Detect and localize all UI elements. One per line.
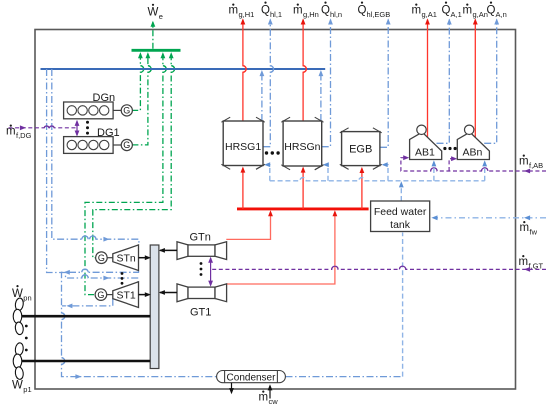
- wire STn generator to bus: [93, 52, 175, 258]
- label m_f,DG: [6, 125, 32, 141]
- electric bus bar: [132, 49, 181, 52]
- svg-text:G: G: [98, 253, 105, 263]
- junction fuel DG double arrow: [75, 120, 80, 137]
- svg-text:ST1: ST1: [117, 290, 136, 302]
- svg-text:Q: Q: [321, 5, 330, 17]
- svg-text:Condenser: Condenser: [227, 373, 277, 384]
- wire GTn exhaust to bus: [226, 210, 273, 239]
- wire fuel m_f,DG to diesel generators: [9, 125, 78, 130]
- wire feed water to AB1: [432, 160, 437, 181]
- wire DG1 generator to bus: [132, 52, 151, 145]
- label DGn: [93, 92, 116, 104]
- svg-text:STn: STn: [117, 253, 136, 265]
- svg-text:hl,EGB: hl,EGB: [367, 10, 391, 19]
- svg-text:Feed water: Feed water: [374, 206, 427, 218]
- gearbox shaft bar: [150, 245, 159, 369]
- dots between AB units: [443, 147, 456, 150]
- svg-text:GT1: GT1: [190, 307, 211, 319]
- wire flue gas m_g,H1 out of HRSG1: [241, 18, 247, 121]
- wire cooling water m_cw into condenser: [268, 384, 273, 398]
- svg-text:m: m: [520, 222, 530, 234]
- wire DGn generator to bus: [132, 52, 144, 110]
- svg-text:GTn: GTn: [190, 231, 211, 243]
- wire flue gas m_g,An out of ABn: [473, 18, 478, 137]
- svg-text:AB1: AB1: [415, 147, 435, 159]
- svg-text:Q: Q: [358, 5, 367, 17]
- boiler HRSGn: [281, 117, 323, 170]
- svg-text:e: e: [159, 12, 163, 21]
- wire HRSG1 steam riser: [260, 70, 265, 121]
- dots between ST units: [121, 272, 124, 285]
- wire HRSGn steam riser: [319, 70, 324, 121]
- wire fuel branch to ABn: [449, 156, 457, 171]
- diesel engine DG1: [64, 137, 114, 154]
- svg-text:m: m: [229, 5, 239, 17]
- label Q_hl,EGB: [358, 1, 391, 19]
- feed water tank: [371, 201, 430, 232]
- generator G of ST1: [95, 289, 113, 301]
- svg-text:G: G: [97, 290, 104, 300]
- svg-text:Q: Q: [442, 5, 451, 17]
- shaft gearbox to GTn: [159, 248, 177, 253]
- wire feed water tank riser: [399, 181, 404, 201]
- svg-text:g,H1: g,H1: [239, 10, 255, 19]
- svg-text:hl,1: hl,1: [270, 10, 282, 19]
- wire ST1 generator to bus: [85, 52, 166, 295]
- auxiliary boiler ABn: [457, 125, 489, 159]
- svg-text:DG1: DG1: [97, 127, 120, 139]
- svg-text:m: m: [519, 256, 529, 268]
- wire Q_hl,EGB heat loss EGB: [380, 18, 391, 147]
- propeller shaft 1: [21, 360, 151, 363]
- wire Q_A,n heat loss ABn: [484, 18, 499, 143]
- propeller shaft n: [21, 315, 151, 318]
- svg-text:W: W: [12, 380, 23, 392]
- boiler EGB: [340, 128, 382, 170]
- svg-text:f,DG: f,DG: [16, 131, 32, 140]
- wire feed water to ABn: [482, 160, 487, 181]
- svg-text:Q: Q: [487, 5, 496, 17]
- svg-text:p1: p1: [23, 385, 31, 394]
- label m_f,GT: [519, 255, 544, 271]
- svg-text:f,AB: f,AB: [529, 161, 543, 170]
- label m_f,AB: [519, 155, 543, 171]
- dots between propellers: [25, 325, 28, 352]
- wire STn exhaust to condenser: [62, 269, 217, 379]
- propeller W_pn: [13, 298, 24, 336]
- svg-text:m: m: [259, 392, 269, 404]
- diesel engine DGn: [64, 102, 114, 119]
- svg-text:Q: Q: [261, 5, 270, 17]
- label W_e electric power: [148, 4, 163, 21]
- svg-text:G: G: [123, 140, 130, 150]
- junction fuel GT double arrow: [208, 257, 213, 287]
- label GTn: [190, 231, 211, 243]
- label Q_hl,n: [321, 1, 342, 19]
- generator G of DGn: [113, 105, 132, 116]
- svg-text:G: G: [123, 106, 130, 116]
- label Q_A,1: [442, 1, 462, 19]
- shaft STn to gearbox: [139, 255, 151, 260]
- dots between GT units: [200, 262, 203, 276]
- steam header line: [41, 68, 326, 70]
- wire flue gas m_g,Hn out of HRSGn: [301, 18, 307, 121]
- condenser: [217, 371, 286, 384]
- exhaust gas bus bar: [237, 207, 369, 210]
- dots between HRSG units: [265, 151, 280, 154]
- svg-text:m: m: [412, 5, 422, 17]
- wire Q_A,1 heat loss AB1: [437, 18, 452, 143]
- steam turbine STn: [113, 245, 139, 271]
- dots between DG units: [86, 121, 89, 135]
- svg-text:tank: tank: [390, 219, 411, 231]
- svg-text:m: m: [463, 5, 473, 17]
- label m_g,Hn: [293, 4, 319, 20]
- wire Q_hl,n heat loss HRSGn: [322, 18, 333, 146]
- boiler HRSG1: [221, 117, 264, 169]
- label DG1: [97, 127, 120, 139]
- gas turbine GTn: [177, 242, 227, 260]
- wire steam supply to ST1: [47, 69, 138, 281]
- generator G of STn: [96, 252, 113, 264]
- wire exhaust bus to EGB: [360, 167, 365, 209]
- svg-text:hl,n: hl,n: [330, 10, 342, 19]
- label m_g,A1: [412, 4, 437, 20]
- wire feed water to HRSGn: [323, 162, 329, 181]
- svg-text:A,n: A,n: [496, 10, 507, 19]
- propeller W_p1: [13, 342, 24, 380]
- auxiliary boiler AB1: [410, 125, 442, 159]
- label W_pn: [12, 285, 32, 303]
- label m_cw: [259, 391, 279, 407]
- label W_p1: [12, 377, 32, 395]
- wire condensate condenser outlet: [286, 376, 403, 378]
- wire W_e to electric bus: [151, 21, 156, 49]
- svg-text:ABn: ABn: [462, 147, 482, 159]
- label m_g,An: [463, 4, 488, 20]
- label m_g,H1: [229, 4, 255, 20]
- feed water header line: [270, 178, 485, 181]
- svg-text:DGn: DGn: [93, 92, 116, 104]
- wire exhaust bus to HRSGn: [301, 167, 306, 209]
- wire cooling water out of condenser: [229, 383, 234, 395]
- wire condensate riser to feed water tank: [402, 233, 404, 377]
- wire fuel m_f,GT to gas turbines: [211, 266, 546, 272]
- wire steam supply to STn: [52, 69, 139, 245]
- shaft gearbox to GT1: [159, 290, 177, 295]
- wire feed water to HRSG1: [264, 162, 270, 181]
- label m_fw: [520, 221, 538, 237]
- svg-text:A,1: A,1: [451, 10, 462, 19]
- label Q_A,n: [487, 1, 507, 19]
- svg-text:pn: pn: [23, 294, 31, 303]
- wire feed water to EGB: [382, 162, 388, 181]
- svg-text:EGB: EGB: [349, 144, 372, 156]
- svg-text:g,Hn: g,Hn: [303, 10, 319, 19]
- gas turbine GT1: [177, 284, 227, 302]
- label GT1: [190, 307, 211, 319]
- svg-text:fw: fw: [530, 228, 538, 237]
- svg-text:m: m: [519, 156, 529, 168]
- wire exhaust bus to HRSG1: [241, 167, 246, 209]
- label Q_hl,1: [261, 1, 282, 19]
- wire ST1 exhaust: [62, 299, 113, 309]
- wire fuel m_f,AB to auxiliary boilers: [401, 155, 546, 173]
- wire flue gas m_g,A1 out of AB1: [425, 18, 430, 137]
- wire GT1 exhaust to bus: [226, 210, 337, 284]
- svg-text:m: m: [293, 5, 303, 17]
- shaft ST1 to gearbox: [139, 292, 151, 297]
- svg-text:HRSG1: HRSG1: [225, 141, 261, 153]
- steam turbine ST1: [113, 282, 139, 308]
- wire makeup water m_fw to tank: [431, 215, 546, 220]
- svg-text:HRSGn: HRSGn: [284, 141, 320, 153]
- generator G of DG1: [113, 139, 132, 150]
- svg-text:W: W: [148, 7, 159, 19]
- system boundary: [35, 30, 516, 390]
- svg-text:g,A1: g,A1: [422, 10, 437, 19]
- wire Q_hl,1 heat loss HRSG1: [263, 18, 273, 146]
